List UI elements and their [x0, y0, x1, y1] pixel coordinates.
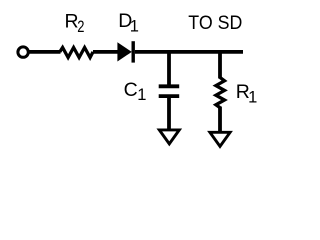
wire — [167, 50, 171, 84]
svg-text:1: 1 — [137, 86, 146, 104]
diode D1 — [117, 42, 131, 61]
resistor R1 — [216, 77, 225, 107]
capacitor C1 — [159, 84, 180, 88]
wire — [93, 50, 118, 54]
wire — [167, 98, 171, 129]
svg-text:TO SD: TO SD — [188, 12, 242, 34]
svg-text:C: C — [124, 79, 138, 101]
wire — [28, 50, 60, 54]
wire — [218, 107, 222, 133]
svg-text:2: 2 — [77, 18, 84, 36]
svg-text:1: 1 — [130, 18, 139, 36]
svg-text:1: 1 — [248, 89, 257, 107]
ground — [210, 132, 230, 146]
input terminal — [18, 47, 28, 57]
wire — [135, 50, 243, 54]
resistor R2 — [60, 48, 93, 58]
ground — [159, 130, 179, 144]
wire — [218, 50, 222, 78]
